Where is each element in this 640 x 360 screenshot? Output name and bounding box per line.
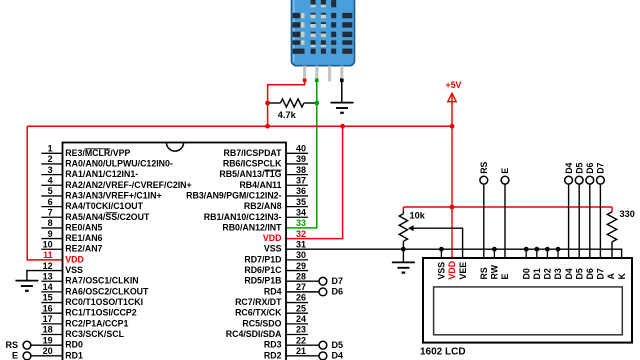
svg-text:RB6/ICSPCLK: RB6/ICSPCLK — [223, 158, 282, 168]
svg-text:18: 18 — [43, 325, 53, 335]
svg-text:RD0: RD0 — [65, 340, 83, 350]
terminal D5 (LCD side) — [575, 176, 583, 184]
svg-text:D3: D3 — [553, 268, 563, 279]
terminal D4 (LCD side) — [565, 176, 573, 184]
svg-text:RC4/SDI/SDA: RC4/SDI/SDA — [226, 329, 282, 339]
svg-text:D7: D7 — [596, 162, 606, 173]
svg-text:D6: D6 — [585, 268, 595, 279]
wire DATA green from DHT11 pin2 to RB0 pin33 — [286, 80, 317, 228]
svg-text:RA7/OSC1/CLKIN: RA7/OSC1/CLKIN — [65, 276, 138, 286]
svg-text:7: 7 — [48, 207, 53, 217]
svg-text:31: 31 — [296, 239, 306, 249]
pin 9 RE1/AN6 — [41, 238, 62, 240]
wire +5V top rail — [27, 125, 452, 127]
wire VDD from DHT11 pin1 to rail — [268, 80, 305, 126]
pin 6 RA4/T0CKI/C1OUT — [41, 206, 62, 208]
svg-text:E: E — [500, 168, 510, 174]
svg-text:RD6/P1C: RD6/P1C — [244, 265, 282, 275]
svg-text:RA4/T0CKI/C1OUT: RA4/T0CKI/C1OUT — [65, 201, 143, 211]
junction rail/DHT branch — [265, 124, 270, 129]
svg-text:RB5/AN13/T1G: RB5/AN13/T1G — [219, 169, 281, 179]
svg-text:RS: RS — [479, 161, 489, 173]
svg-text:RB4/AN11: RB4/AN11 — [239, 180, 281, 190]
svg-text:20: 20 — [43, 346, 53, 356]
svg-text:16: 16 — [43, 303, 53, 313]
svg-text:RB2/AN8: RB2/AN8 — [244, 201, 282, 211]
svg-text:RE3/MCLR/VPP: RE3/MCLR/VPP — [65, 148, 130, 158]
svg-text:VSS: VSS — [437, 262, 447, 280]
svg-text:RE0/AN5: RE0/AN5 — [65, 222, 102, 232]
svg-text:RC0/T1OSO/T1CKI: RC0/T1OSO/T1CKI — [65, 297, 143, 307]
svg-text:RD3: RD3 — [264, 340, 282, 350]
svg-text:21: 21 — [296, 346, 306, 356]
svg-text:RA6/OSC2/CLKOUT: RA6/OSC2/CLKOUT — [65, 286, 149, 296]
svg-text:RC7/RX/DT: RC7/RX/DT — [235, 297, 282, 307]
svg-text:VDD: VDD — [447, 261, 457, 280]
svg-text:34: 34 — [296, 207, 306, 217]
junction rail/+5V — [450, 124, 455, 129]
junction ground rail/D0 — [524, 247, 529, 252]
MCU U1 PIC16F887 body — [63, 143, 287, 360]
svg-text:15: 15 — [43, 293, 53, 303]
svg-text:5: 5 — [48, 186, 53, 196]
svg-text:3: 3 — [48, 165, 53, 175]
wire VDD pin32 riser — [286, 126, 343, 238]
DHT11 pins 1-4 — [303, 66, 306, 81]
svg-text:8: 8 — [48, 218, 53, 228]
svg-text:35: 35 — [296, 197, 306, 207]
svg-text:D1: D1 — [532, 268, 542, 279]
svg-text:VDD: VDD — [65, 254, 84, 264]
svg-text:13: 13 — [43, 271, 53, 281]
svg-text:330: 330 — [620, 209, 635, 219]
pin 34 RB1/AN10/C12IN3- — [286, 216, 308, 218]
svg-text:D2: D2 — [543, 268, 553, 279]
svg-text:11: 11 — [43, 250, 53, 260]
svg-text:27: 27 — [296, 282, 306, 292]
wire DHT11 pin4 to ground — [341, 80, 343, 102]
pin 7 RA5/AN4/SS/C2OUT — [41, 216, 62, 218]
svg-text:29: 29 — [296, 261, 306, 271]
svg-text:10k: 10k — [410, 211, 426, 221]
pin 5 RA3/AN3/VREF+/C1IN+ — [41, 195, 62, 197]
svg-text:K: K — [617, 273, 627, 280]
LCD LCD1 1602 body — [423, 258, 632, 343]
potentiometer RV 10k — [402, 207, 404, 211]
notch — [166, 143, 183, 152]
svg-text:D4: D4 — [332, 350, 344, 360]
svg-text:32: 32 — [296, 229, 306, 239]
svg-text:19: 19 — [43, 335, 53, 345]
svg-text:4.7k: 4.7k — [278, 110, 297, 120]
svg-text:36: 36 — [296, 186, 306, 196]
svg-text:RS: RS — [479, 267, 489, 279]
svg-text:D0: D0 — [521, 268, 531, 279]
terminal D7 (LCD side) — [597, 176, 605, 184]
pin 39 RB6/ICSPCLK — [286, 163, 308, 165]
pin 26 RC7/RX/DT — [286, 302, 308, 304]
svg-text:RS: RS — [5, 340, 18, 350]
terminal E (MCU side) — [31, 355, 63, 357]
svg-text:D5: D5 — [574, 268, 584, 279]
svg-text:RB1/AN10/C12IN3-: RB1/AN10/C12IN3- — [204, 212, 282, 222]
svg-text:D5: D5 — [574, 162, 584, 173]
overline T1G pin38 — [264, 169, 281, 171]
pin 13 RA7/OSC1/CLKIN — [41, 280, 62, 282]
pin 22 RD3 — [286, 344, 319, 346]
resistor R 330 — [611, 207, 613, 212]
svg-text:RD5/P1B: RD5/P1B — [244, 276, 281, 286]
svg-text:VEE: VEE — [458, 262, 468, 280]
svg-text:A: A — [606, 273, 616, 280]
svg-text:22: 22 — [296, 335, 306, 345]
svg-text:RD2: RD2 — [264, 350, 282, 360]
junction ground rail/D1 — [534, 247, 539, 252]
overline SS pin7 — [105, 212, 117, 214]
svg-text:+5V: +5V — [445, 80, 461, 90]
svg-text:1: 1 — [48, 144, 53, 154]
pin 23 RC4/SDI/SDA — [286, 334, 308, 336]
pot wiper arrow to VEE — [413, 228, 463, 258]
pin 40 RB7/ICSPDAT — [286, 152, 308, 154]
svg-text:D6: D6 — [585, 162, 595, 173]
svg-text:10: 10 — [43, 239, 53, 249]
svg-text:RD1: RD1 — [65, 350, 83, 360]
pin 38 RB5/AN13/T1G — [286, 174, 308, 176]
svg-text:RC3/SCK/SCL: RC3/SCK/SCL — [65, 329, 124, 339]
pin 27 RD4 — [286, 291, 319, 293]
svg-text:40: 40 — [296, 144, 306, 154]
ground (pot) — [402, 249, 404, 262]
wire ground rail from pin31 VSS — [286, 249, 622, 258]
svg-text:RA5/AN4/SS/C2OUT: RA5/AN4/SS/C2OUT — [65, 212, 150, 222]
svg-text:25: 25 — [296, 303, 306, 313]
pin 1 RE3/MCLR/VPP — [41, 152, 62, 154]
junction pot/ground rail — [401, 247, 406, 252]
svg-text:RA3/AN3/VREF+/C1IN+: RA3/AN3/VREF+/C1IN+ — [65, 190, 161, 200]
svg-text:RB0/AN12/INT: RB0/AN12/INT — [222, 222, 282, 232]
pin 24 RC5/SDO — [286, 323, 308, 325]
pin 36 RB3/AN9/PGM/C12IN2- — [286, 195, 308, 197]
junction on DATA wire — [314, 101, 319, 106]
svg-text:RC1/T1OSI/CCP2: RC1/T1OSI/CCP2 — [65, 308, 136, 318]
svg-text:30: 30 — [296, 250, 306, 260]
resistor R 4.7k — [281, 99, 304, 107]
wire VDD left drop to pin11 — [27, 126, 62, 260]
junction ground rail/RW — [492, 247, 497, 252]
svg-text:12: 12 — [43, 261, 53, 271]
svg-text:E: E — [500, 274, 510, 280]
terminal E (LCD side) — [501, 176, 509, 184]
pin 3 RA1/AN1/C12IN1- — [41, 174, 62, 176]
svg-text:RB7/ICSPDAT: RB7/ICSPDAT — [224, 148, 283, 158]
svg-text:RE1/AN6: RE1/AN6 — [65, 233, 102, 243]
svg-text:4: 4 — [48, 175, 53, 185]
wire +5V rail to pot and 330 — [403, 206, 612, 208]
junction +5V/rail2 — [450, 205, 455, 210]
svg-text:RD7/P1D: RD7/P1D — [244, 254, 281, 264]
svg-text:28: 28 — [296, 271, 306, 281]
svg-text:RE2/AN7: RE2/AN7 — [65, 244, 102, 254]
svg-text:VSS: VSS — [65, 265, 83, 275]
svg-text:RC5/SDO: RC5/SDO — [242, 318, 281, 328]
svg-text:D4: D4 — [564, 268, 574, 279]
pin 29 RD6/P1C — [286, 270, 308, 272]
svg-text:9: 9 — [48, 229, 53, 239]
wire VSS pin12 to ground — [27, 271, 63, 281]
junction rail/pin32 riser — [340, 124, 345, 129]
junction on VDD drop — [265, 101, 270, 106]
svg-text:23: 23 — [296, 325, 306, 335]
terminal RS (LCD side) — [480, 176, 488, 184]
svg-text:RC6/TX/CK: RC6/TX/CK — [235, 308, 282, 318]
pin 35 RB2/AN8 — [286, 206, 308, 208]
pin 18 RC3/SCK/SCL — [41, 334, 62, 336]
power +5V symbol — [448, 93, 456, 258]
pin 28 RD5/P1B — [286, 280, 319, 282]
svg-text:37: 37 — [296, 175, 306, 185]
ground (DHT11) — [331, 103, 354, 113]
pin 2 RA0/AN0/ULPWU/C12IN0- — [41, 163, 62, 165]
svg-text:E: E — [12, 350, 18, 360]
svg-text:D6: D6 — [332, 286, 344, 296]
svg-text:1602 LCD: 1602 LCD — [420, 347, 466, 358]
svg-text:RD4: RD4 — [264, 286, 282, 296]
pin 14 RA6/OSC2/CLKOUT — [41, 291, 62, 293]
svg-text:26: 26 — [296, 293, 306, 303]
pin 4 RA2/AN2/VREF-/CVREF/C2IN+ — [41, 184, 62, 186]
terminal RS (MCU side) — [31, 344, 63, 346]
pin 21 RD2 — [286, 355, 319, 357]
svg-text:VDD: VDD — [263, 233, 282, 243]
junction ground rail/D3 — [556, 247, 561, 252]
svg-text:RC2/P1A/CCP1: RC2/P1A/CCP1 — [65, 318, 128, 328]
LCD screen — [434, 287, 623, 335]
svg-text:38: 38 — [296, 165, 306, 175]
svg-text:RB3/AN9/PGM/C12IN2-: RB3/AN9/PGM/C12IN2- — [186, 190, 281, 200]
junction ground rail/D2 — [545, 247, 550, 252]
svg-text:RA2/AN2/VREF-/CVREF/C2IN+: RA2/AN2/VREF-/CVREF/C2IN+ — [65, 180, 191, 190]
svg-text:14: 14 — [43, 282, 53, 292]
svg-text:D7: D7 — [596, 268, 606, 279]
svg-text:RA0/AN0/ULPWU/C12IN0-: RA0/AN0/ULPWU/C12IN0- — [65, 158, 173, 168]
pin 16 RC1/T1OSI/CCP2 — [41, 312, 62, 314]
pin 25 RC6/TX/CK — [286, 312, 308, 314]
svg-text:RW: RW — [490, 264, 500, 279]
junction ground rail/VSS — [439, 247, 444, 252]
sensor DHT11 — [292, 0, 355, 66]
svg-text:VSS: VSS — [264, 244, 282, 254]
svg-text:24: 24 — [296, 314, 306, 324]
pin 37 RB4/AN11 — [286, 184, 308, 186]
pin 17 RC2/P1A/CCP1 — [41, 323, 62, 325]
svg-text:33: 33 — [296, 218, 306, 228]
LCD pin stubs to ground rail — [440, 249, 442, 258]
pin 15 RC0/T1OSO/T1CKI — [41, 302, 62, 304]
pin 30 RD7/P1D — [286, 259, 308, 261]
ground (pin12 VSS) — [15, 281, 38, 291]
svg-text:17: 17 — [43, 314, 53, 324]
svg-text:RA1/AN1/C12IN1-: RA1/AN1/C12IN1- — [65, 169, 138, 179]
svg-text:D4: D4 — [564, 162, 574, 173]
svg-text:39: 39 — [296, 154, 306, 164]
svg-text:2: 2 — [48, 154, 53, 164]
svg-text:D5: D5 — [332, 340, 344, 350]
overline MCLR pin1 — [85, 148, 110, 150]
svg-text:6: 6 — [48, 197, 53, 207]
pin 8 RE0/AN5 — [41, 227, 62, 229]
pin 10 RE2/AN7 — [41, 248, 62, 250]
svg-text:D7: D7 — [332, 276, 344, 286]
terminal D6 (LCD side) — [586, 176, 594, 184]
